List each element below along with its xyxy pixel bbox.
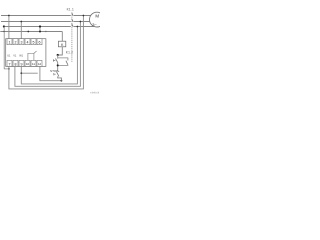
wire drop to terminal 3 xyxy=(20,22,22,39)
stop button seat tick xyxy=(58,70,60,72)
terminal 12 xyxy=(37,60,42,66)
svg-text:K1.2: K1.2 xyxy=(66,51,73,55)
contact K1.1 pole 1 xyxy=(72,13,74,16)
node dot jumper bottom xyxy=(39,31,41,33)
svg-text:U1: U1 xyxy=(7,54,11,58)
svg-text:3: 3 xyxy=(21,41,23,45)
wire coil bottom to chain node xyxy=(58,47,63,55)
mechanical linkage dashed xyxy=(71,12,73,62)
node dot jumper top xyxy=(39,25,41,27)
motor M 3~ xyxy=(90,12,105,27)
wire terminal 12 to control chain xyxy=(40,66,62,80)
start button contact diagonal xyxy=(56,59,58,63)
terminal 9 xyxy=(19,60,24,66)
contact arm toward terminal 12 xyxy=(34,51,37,53)
svg-text:K1.1: K1.1 xyxy=(67,8,74,12)
node dot junction at terminal7 wire xyxy=(8,68,10,70)
terminal 1 xyxy=(7,39,12,45)
node dot stub left junction xyxy=(20,72,22,74)
contact K1.1 pole 2 xyxy=(72,19,74,22)
node dot on N line at x4 xyxy=(3,31,4,32)
contact K1.1 pole 3 xyxy=(72,24,74,27)
terminal 3 xyxy=(19,39,24,45)
wire chain node to start button xyxy=(57,55,59,59)
terminal 6 xyxy=(37,39,42,45)
contact K1.2 diagonal xyxy=(66,61,68,65)
coil K box xyxy=(58,41,65,47)
wire stub from sensing wire 9 xyxy=(21,72,37,74)
terminal 7 xyxy=(7,60,12,66)
svg-text:3~: 3~ xyxy=(92,22,97,27)
svg-text:8: 8 xyxy=(15,62,17,66)
node dot L3 tap left xyxy=(20,21,22,23)
node dot L3 tap right xyxy=(77,26,79,28)
svg-text:5: 5 xyxy=(33,41,35,45)
wire terminal 7 sensing to L1 right xyxy=(9,16,84,89)
node dot chain to t12 run xyxy=(61,80,63,82)
internal relay contact bridge terminals 10-11 xyxy=(28,53,34,60)
node dot chain top xyxy=(57,54,59,56)
start button operator xyxy=(53,59,55,61)
wire below stop to t12 run xyxy=(58,76,62,80)
svg-text:M: M xyxy=(95,14,99,19)
node dot on N line near box corner xyxy=(45,31,46,32)
svg-text:10: 10 xyxy=(26,62,30,66)
wire L1 bus line xyxy=(1,15,71,17)
svg-text:4: 4 xyxy=(27,41,29,45)
wire terminal 8 sensing to L2 right xyxy=(15,22,81,87)
wire L1 after contact to motor xyxy=(74,15,91,17)
node dot L1 tap right xyxy=(83,15,85,17)
wire L3 after contact to motor xyxy=(74,26,94,28)
wire around-left from L3 end down to terminal7 wire xyxy=(4,27,9,69)
svg-text:7: 7 xyxy=(9,62,11,66)
svg-text:1: 1 xyxy=(9,41,11,45)
svg-text:W1: W1 xyxy=(19,54,23,58)
stop button contact diagonal xyxy=(57,72,59,77)
node dot L2 tap right xyxy=(80,21,82,23)
node dot stray on N line xyxy=(27,31,29,33)
wire N line corner down to coil K xyxy=(61,32,63,42)
node dot L3 left end xyxy=(3,25,5,27)
svg-text:V1: V1 xyxy=(13,54,17,58)
svg-text:11: 11 xyxy=(32,62,35,66)
terminal 11 xyxy=(31,60,36,66)
terminal 8 xyxy=(13,60,18,66)
relay device box CZF xyxy=(6,39,46,67)
stop button operator xyxy=(54,73,56,75)
holding branch wire top xyxy=(58,58,68,61)
wire below start button xyxy=(57,62,59,71)
node dot L1 tap left xyxy=(8,15,10,17)
svg-text:12: 12 xyxy=(38,62,42,66)
jumper wire L3 to N at x40 xyxy=(39,27,41,32)
node dot branch bottom xyxy=(57,64,59,66)
terminal 10 xyxy=(25,60,30,66)
wire L2 bus line xyxy=(1,21,71,23)
wire drop to terminal 1 xyxy=(8,16,10,39)
wire L2 after contact to motor xyxy=(74,21,90,23)
holding branch wire bottom xyxy=(58,64,68,67)
wire N control bus line xyxy=(0,31,62,33)
svg-text:elektrik: elektrik xyxy=(90,90,100,94)
svg-text:2: 2 xyxy=(15,41,17,45)
terminal 2 xyxy=(13,39,18,45)
wire L3 bus line xyxy=(4,26,71,28)
terminal 4 xyxy=(25,39,30,45)
wire terminal 9 sensing to L3 right xyxy=(21,27,77,84)
svg-text:6: 6 xyxy=(39,41,41,45)
svg-text:9: 9 xyxy=(21,62,23,66)
terminal 5 xyxy=(31,39,36,45)
